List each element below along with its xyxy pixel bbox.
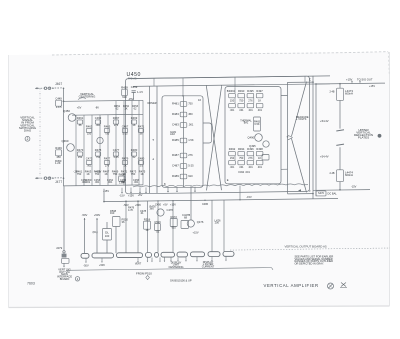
svg-text:.001: .001	[188, 123, 194, 127]
svg-text:C459: C459	[131, 85, 138, 89]
svg-text:360: 360	[150, 207, 155, 211]
svg-text:R487: R487	[172, 153, 179, 157]
svg-text:R498: R498	[256, 147, 263, 151]
svg-text:+54.4V: +54.4V	[320, 155, 329, 159]
svg-text:R467: R467	[113, 116, 120, 120]
svg-text:.001: .001	[230, 166, 235, 169]
svg-text:5-25: 5-25	[188, 164, 194, 168]
svg-text:PLATES: PLATES	[358, 136, 369, 140]
svg-text:C492 .001: C492 .001	[238, 170, 250, 174]
svg-text:1K: 1K	[124, 106, 127, 110]
svg-text:R485: R485	[172, 138, 179, 142]
svg-text:100: 100	[105, 234, 110, 238]
svg-text:Q476: Q476	[197, 220, 204, 224]
svg-text:R491: R491	[229, 89, 236, 93]
svg-text:R473: R473	[77, 148, 84, 152]
svg-text:1K: 1K	[86, 172, 89, 176]
svg-text:+50V: +50V	[135, 203, 141, 207]
svg-text:16: 16	[198, 98, 201, 102]
svg-text:6.5K: 6.5K	[254, 122, 260, 126]
svg-text:OR DEPICTED IN GRAY.: OR DEPICTED IN GRAY.	[295, 262, 325, 266]
svg-text:+5V: +5V	[77, 106, 82, 110]
svg-text:R477: R477	[104, 157, 111, 161]
svg-text:R516: R516	[144, 218, 151, 222]
svg-text:.001: .001	[96, 123, 102, 127]
svg-text:.001: .001	[121, 181, 126, 184]
svg-text:.001: .001	[257, 166, 262, 169]
svg-text:C467: C467	[122, 125, 129, 129]
svg-text:R480: R480	[131, 148, 138, 152]
svg-text:R479: R479	[122, 157, 129, 161]
svg-text:750: 750	[113, 172, 118, 176]
svg-text:+15V: +15V	[369, 84, 375, 88]
svg-text:TO SIG OUT: TO SIG OUT	[357, 78, 373, 82]
svg-text:910: 910	[172, 226, 177, 230]
svg-text:36: 36	[122, 220, 125, 224]
svg-text:C477: C477	[113, 148, 120, 152]
svg-text:C450: C450	[155, 203, 162, 207]
svg-text:276: 276	[114, 123, 119, 127]
svg-text:R492: R492	[229, 147, 236, 151]
svg-text:BOARD: BOARD	[60, 277, 70, 281]
svg-text:1.5K: 1.5K	[188, 138, 194, 142]
svg-text:750: 750	[239, 156, 244, 160]
svg-text:R481: R481	[172, 102, 179, 106]
svg-text:+15V: +15V	[170, 203, 176, 207]
svg-text:276: 276	[188, 153, 193, 157]
svg-text:150: 150	[230, 156, 235, 160]
svg-text:450: 450	[188, 112, 193, 116]
svg-text:R497: R497	[256, 89, 263, 93]
svg-text:600nH: 600nH	[345, 91, 353, 95]
svg-text:FROM P510: FROM P510	[136, 272, 152, 276]
svg-text:ADJ: ADJ	[170, 132, 176, 136]
svg-text:+ VOLTS: + VOLTS	[296, 117, 307, 121]
svg-text:-15V: -15V	[351, 184, 357, 188]
svg-text:R472: R472	[170, 215, 177, 219]
svg-text:VERTICAL OUTPUT BOARD A5: VERTICAL OUTPUT BOARD A5	[285, 245, 327, 249]
svg-text:1K: 1K	[123, 164, 126, 168]
svg-text:BAL: BAL	[244, 122, 249, 125]
svg-text:910: 910	[122, 95, 127, 99]
svg-text:R463: R463	[86, 125, 93, 129]
svg-text:DIAG: DIAG	[24, 129, 32, 133]
svg-text:C516: C516	[154, 220, 161, 224]
svg-text:+54.4V: +54.4V	[320, 119, 329, 123]
svg-text:1K: 1K	[122, 172, 125, 176]
svg-text:Q460: Q460	[62, 139, 69, 143]
svg-text:150: 150	[87, 132, 92, 136]
svg-text:R461: R461	[77, 116, 84, 120]
svg-text:+5V: +5V	[138, 193, 143, 197]
svg-text:.001: .001	[108, 181, 113, 184]
svg-text:-50V: -50V	[82, 213, 88, 217]
svg-text:R465: R465	[104, 125, 111, 129]
svg-text:276: 276	[105, 164, 110, 168]
svg-text:C463: C463	[95, 116, 102, 120]
svg-text:.01: .01	[139, 164, 143, 168]
svg-text:1K: 1K	[258, 99, 261, 103]
svg-text:.001: .001	[230, 109, 235, 112]
svg-text:1-4.5: 1-4.5	[56, 105, 62, 109]
svg-text:Q450: Q450	[63, 109, 70, 113]
svg-text:+5V: +5V	[163, 202, 168, 206]
svg-text:R471: R471	[138, 125, 145, 129]
svg-text:R475: R475	[95, 148, 102, 152]
svg-text:750: 750	[105, 132, 110, 136]
svg-text:R483: R483	[172, 112, 179, 116]
svg-text:J479: J479	[56, 246, 63, 250]
svg-text:E: E	[227, 178, 229, 182]
svg-text:2-4B: 2-4B	[329, 91, 334, 94]
svg-text:R495: R495	[247, 89, 254, 93]
svg-text:1K: 1K	[132, 123, 135, 127]
svg-text:+15V: +15V	[128, 193, 134, 197]
svg-text:+15V: +15V	[346, 78, 353, 82]
svg-text:.001: .001	[95, 181, 100, 184]
svg-text:SN B010100 & UP: SN B010100 & UP	[170, 278, 192, 282]
svg-text:R494: R494	[238, 147, 245, 151]
svg-text:450: 450	[56, 155, 61, 159]
svg-text:600nH: 600nH	[345, 173, 353, 177]
svg-text:750: 750	[95, 172, 100, 176]
svg-text:276: 276	[248, 156, 253, 160]
svg-text:910: 910	[110, 211, 115, 215]
svg-text:C487: C487	[172, 164, 179, 168]
svg-text:.001: .001	[257, 109, 262, 112]
svg-text:.001: .001	[82, 181, 87, 184]
svg-text:-50V: -50V	[83, 263, 89, 267]
svg-text:.001: .001	[239, 166, 244, 169]
svg-text:750: 750	[77, 172, 82, 176]
svg-text:276: 276	[248, 99, 253, 103]
svg-text:750: 750	[239, 99, 244, 103]
svg-text:1K: 1K	[258, 156, 261, 160]
svg-text:DRIVER: DRIVER	[147, 102, 156, 105]
svg-text:R449: R449	[55, 146, 62, 150]
svg-text:4.7K: 4.7K	[128, 208, 134, 212]
svg-text:7603: 7603	[27, 281, 35, 285]
svg-text:+50V: +50V	[94, 213, 101, 217]
svg-text:S470: S470	[318, 191, 325, 195]
svg-text:-15V: -15V	[246, 195, 252, 199]
svg-text:+50V: +50V	[99, 263, 105, 267]
svg-text:C: C	[309, 77, 311, 81]
svg-text:C483: C483	[172, 123, 179, 127]
svg-text:CURRENT: CURRENT	[202, 264, 215, 268]
svg-text:-15V: -15V	[119, 194, 125, 198]
svg-text:1K: 1K	[145, 228, 148, 232]
svg-text:C449: C449	[55, 97, 62, 101]
svg-text:C486: C486	[202, 202, 209, 206]
svg-text:2-4B: 2-4B	[329, 172, 334, 175]
svg-text:.001: .001	[239, 109, 244, 112]
svg-text:DC BAL: DC BAL	[328, 191, 338, 195]
svg-text:C480: C480	[138, 157, 145, 161]
svg-text:.001: .001	[134, 181, 139, 184]
svg-text:750: 750	[131, 172, 136, 176]
svg-text:.01: .01	[156, 230, 160, 234]
svg-text:.001: .001	[248, 109, 253, 112]
svg-text:150: 150	[230, 99, 235, 103]
svg-text:100: 100	[215, 221, 220, 225]
svg-text:R493: R493	[238, 89, 245, 93]
svg-text:CENTERING: CENTERING	[169, 265, 184, 269]
svg-text:2: 2	[27, 137, 29, 141]
svg-text:VERT: VERT	[135, 263, 142, 266]
svg-text:.01: .01	[140, 211, 144, 215]
svg-text:68: 68	[184, 216, 187, 220]
svg-text:-8V: -8V	[95, 106, 99, 110]
svg-text:C476: C476	[167, 208, 174, 212]
svg-text:Q490: Q490	[248, 136, 255, 140]
svg-text:J467: J467	[55, 82, 62, 86]
svg-text:R496: R496	[247, 147, 254, 151]
svg-text:R459: R459	[121, 86, 128, 90]
svg-text:1K: 1K	[140, 172, 143, 176]
svg-text:1K: 1K	[104, 172, 107, 176]
svg-text:VERTICAL AMPLIFIER: VERTICAL AMPLIFIER	[264, 283, 319, 288]
svg-text:1-4.5: 1-4.5	[137, 90, 143, 94]
svg-text:C473: C473	[86, 157, 93, 161]
svg-text:750: 750	[188, 102, 193, 106]
svg-text:1.2K: 1.2K	[55, 161, 61, 165]
svg-text:5-25: 5-25	[113, 155, 119, 159]
svg-text:910: 910	[188, 174, 193, 178]
svg-text:DL: DL	[105, 230, 109, 234]
svg-text:150: 150	[78, 155, 83, 159]
svg-text:R489: R489	[172, 174, 179, 178]
svg-text:5-25: 5-25	[122, 132, 128, 136]
svg-text:750: 750	[96, 155, 101, 159]
svg-text:.001: .001	[87, 164, 93, 168]
svg-text:.001: .001	[248, 166, 253, 169]
svg-text:(DL): (DL)	[93, 230, 98, 234]
svg-text:J477: J477	[55, 180, 62, 184]
svg-text:+15V: +15V	[193, 231, 199, 235]
svg-text:R469: R469	[131, 116, 138, 120]
